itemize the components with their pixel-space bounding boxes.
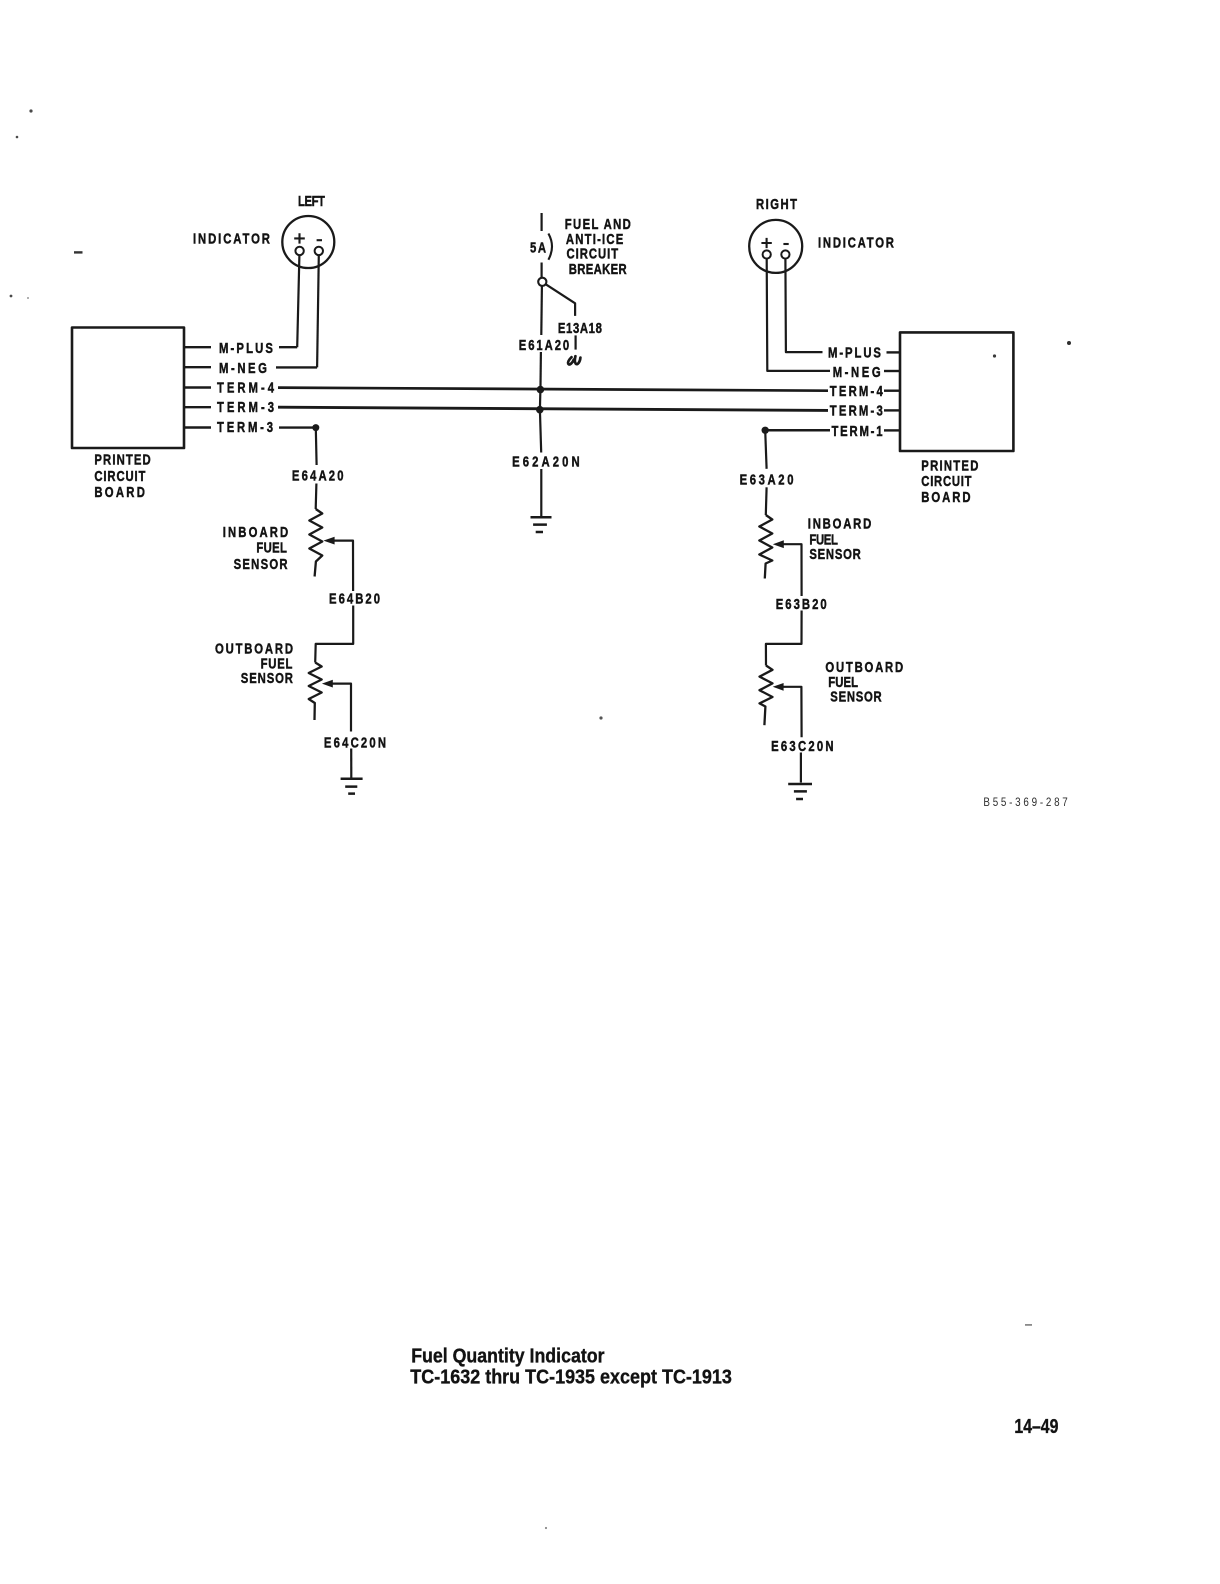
- svg-text:E13A18: E13A18: [558, 320, 602, 337]
- junction dot E61A20 to TERM-4 bus: [537, 386, 545, 394]
- wire outboard wiper left: [332, 684, 351, 732]
- svg-text:BOARD: BOARD: [921, 488, 970, 505]
- wire E63A20 lower: [765, 487, 768, 515]
- wire stub M-PLUS left: [184, 346, 211, 348]
- svg-text:INBOARD: INBOARD: [808, 515, 871, 532]
- wire left indicator - to M-NEG: [317, 255, 319, 367]
- junction dot on TERM-3 bus: [536, 406, 544, 414]
- wire breaker feed top: [540, 213, 542, 231]
- svg-text:TERM-1: TERM-1: [832, 422, 883, 439]
- svg-text:5A: 5A: [530, 239, 547, 256]
- speck dot left margin lower: [10, 295, 13, 298]
- wire E62A20N upper: [540, 410, 541, 453]
- svg-text:CIRCUIT: CIRCUIT: [567, 245, 619, 262]
- wire outboard wiper right: [783, 687, 802, 737]
- svg-text:TC-1632 thru TC-1935 except TC: TC-1632 thru TC-1935 except TC-1913: [410, 1367, 732, 1389]
- svg-text:14–49: 14–49: [1014, 1416, 1058, 1438]
- wire TERM-3 bus: [278, 407, 828, 410]
- ground symbol left sensor: [341, 779, 363, 794]
- wire E64A20 upper: [315, 428, 318, 465]
- svg-text:TERM-4: TERM-4: [830, 383, 884, 400]
- wire E63A20 upper: [765, 430, 766, 469]
- right indicator minus sign: [783, 243, 788, 245]
- svg-text:E63C20N: E63C20N: [771, 737, 833, 754]
- right indicator terminal - pin: [781, 250, 789, 258]
- svg-text:LEFT: LEFT: [298, 193, 325, 210]
- svg-text:SENSOR: SENSOR: [241, 669, 294, 686]
- svg-text:SENSOR: SENSOR: [830, 688, 882, 705]
- junction dot TERM-1: [762, 427, 769, 434]
- wire E61A20 upper: [540, 286, 543, 335]
- wire inboard wiper right: [783, 544, 802, 596]
- resistor outboard fuel sensor left: [309, 663, 322, 721]
- wiper arrow inboard right: [773, 540, 784, 548]
- svg-text:E61A20: E61A20: [519, 336, 569, 353]
- svg-text:SENSOR: SENSOR: [809, 546, 861, 563]
- svg-text:TERM-3: TERM-3: [830, 402, 883, 419]
- speck dash left margin: [74, 251, 83, 253]
- svg-text:M-NEG: M-NEG: [833, 363, 881, 380]
- right printed circuit board box: [900, 332, 1013, 451]
- wire TERM-3 lower to junction: [279, 426, 316, 428]
- resistor inboard fuel sensor right: [759, 515, 772, 579]
- svg-text:CIRCUIT: CIRCUIT: [94, 467, 145, 484]
- wire M-NEG left to indicator: [276, 366, 317, 368]
- svg-text:BOARD: BOARD: [94, 484, 144, 501]
- wire E61A20 lower: [539, 352, 542, 386]
- speck dot top left 1: [29, 109, 32, 112]
- right indicator body: [749, 220, 802, 273]
- svg-text:SENSOR: SENSOR: [234, 555, 289, 572]
- wire E64A20 lower: [315, 484, 318, 510]
- pigtail wire end E13A18: [568, 356, 580, 364]
- svg-text:TERM-3: TERM-3: [217, 419, 273, 436]
- svg-text:E63B20: E63B20: [776, 596, 827, 613]
- right indicator terminal + pin: [763, 250, 771, 258]
- junction dot E64A20: [312, 424, 319, 431]
- wire E13A18 diagonal from contact: [546, 284, 575, 316]
- wire stub TERM-3 left: [184, 406, 211, 408]
- wiper arrow outboard right: [773, 683, 784, 691]
- speck dot bottom center: [545, 1527, 547, 1529]
- left indicator terminal + pin: [295, 247, 303, 255]
- ground symbol center E62A20N: [531, 517, 552, 532]
- svg-text:INDICATOR: INDICATOR: [193, 230, 271, 247]
- wire stub TERM-3 lower left: [184, 426, 211, 428]
- svg-text:B55-369-287: B55-369-287: [983, 796, 1067, 809]
- wire M-PLUS left to indicator: [279, 346, 297, 348]
- svg-text:E64B20: E64B20: [329, 590, 380, 607]
- wiper arrow inboard left: [323, 537, 334, 545]
- wire inboard wiper left: [334, 541, 354, 591]
- svg-text:INDICATOR: INDICATOR: [818, 234, 895, 251]
- left indicator body: [282, 216, 334, 268]
- resistor inboard fuel sensor left: [309, 509, 322, 577]
- svg-text:E64C20N: E64C20N: [324, 734, 386, 751]
- speck dash above caption right: [1025, 1324, 1032, 1326]
- circuit breaker 5A arc: [548, 234, 552, 260]
- svg-text:PRINTED: PRINTED: [94, 451, 150, 468]
- left indicator terminal - pin: [315, 247, 323, 255]
- wire left indicator + to M-PLUS: [297, 255, 299, 347]
- svg-text:INBOARD: INBOARD: [223, 524, 288, 541]
- speck dot between sensors: [599, 716, 602, 719]
- wire E63B20 lower: [766, 611, 802, 666]
- wire E62A20N to ground: [540, 469, 542, 516]
- svg-text:PRINTED: PRINTED: [921, 457, 978, 474]
- svg-text:FUEL: FUEL: [256, 539, 287, 556]
- left indicator plus sign: [294, 233, 305, 243]
- svg-text:TERM-4: TERM-4: [217, 379, 275, 396]
- wire stub TERM-1 right: [884, 429, 900, 431]
- wire E64B20 lower: [315, 606, 353, 663]
- wire E13A18 below label: [574, 335, 576, 349]
- svg-text:E63A20: E63A20: [740, 471, 794, 488]
- svg-text:E62A20N: E62A20N: [512, 453, 580, 470]
- speck dot top left 2: [16, 136, 19, 139]
- left printed circuit board box: [72, 328, 184, 449]
- wiper arrow outboard left: [322, 680, 333, 688]
- wire breaker to contact: [540, 263, 542, 278]
- ground symbol right sensor: [788, 784, 812, 799]
- wire TERM-1 to junction: [765, 429, 830, 432]
- wire stub M-NEG right: [884, 370, 900, 372]
- wire between buses: [539, 390, 542, 410]
- breaker contact circle: [538, 278, 546, 286]
- speck dot right of breaker: [1067, 341, 1071, 345]
- svg-text:RIGHT: RIGHT: [756, 196, 797, 213]
- wire E63C20N lower: [800, 753, 802, 783]
- svg-text:M-NEG: M-NEG: [219, 359, 267, 376]
- wire E64C20N lower: [350, 749, 352, 778]
- svg-text:TERM-3: TERM-3: [217, 399, 274, 416]
- svg-text:BREAKER: BREAKER: [569, 261, 627, 278]
- svg-text:M-PLUS: M-PLUS: [828, 344, 881, 361]
- wire stub TERM-3 right: [884, 409, 900, 411]
- wire stub M-PLUS right: [887, 351, 901, 353]
- wire stub M-NEG left: [184, 366, 211, 368]
- svg-text:M-PLUS: M-PLUS: [219, 339, 273, 356]
- wire right indicator - to M-PLUS: [785, 259, 822, 352]
- wire right indicator + to M-NEG: [767, 259, 830, 371]
- wire stub TERM-4 right: [884, 390, 900, 392]
- speck dot inside right pcb: [993, 354, 996, 357]
- resistor outboard fuel sensor right: [760, 666, 773, 726]
- right indicator plus sign: [761, 238, 771, 248]
- speck dot left margin lower 2: [27, 297, 29, 299]
- svg-text:Fuel Quantity Indicator: Fuel Quantity Indicator: [411, 1346, 604, 1368]
- left indicator minus sign: [317, 239, 322, 241]
- wire stub TERM-4 left: [184, 386, 211, 388]
- svg-text:E64A20: E64A20: [292, 467, 344, 484]
- wire TERM-4 bus: [278, 388, 828, 391]
- svg-text:CIRCUIT: CIRCUIT: [921, 473, 971, 490]
